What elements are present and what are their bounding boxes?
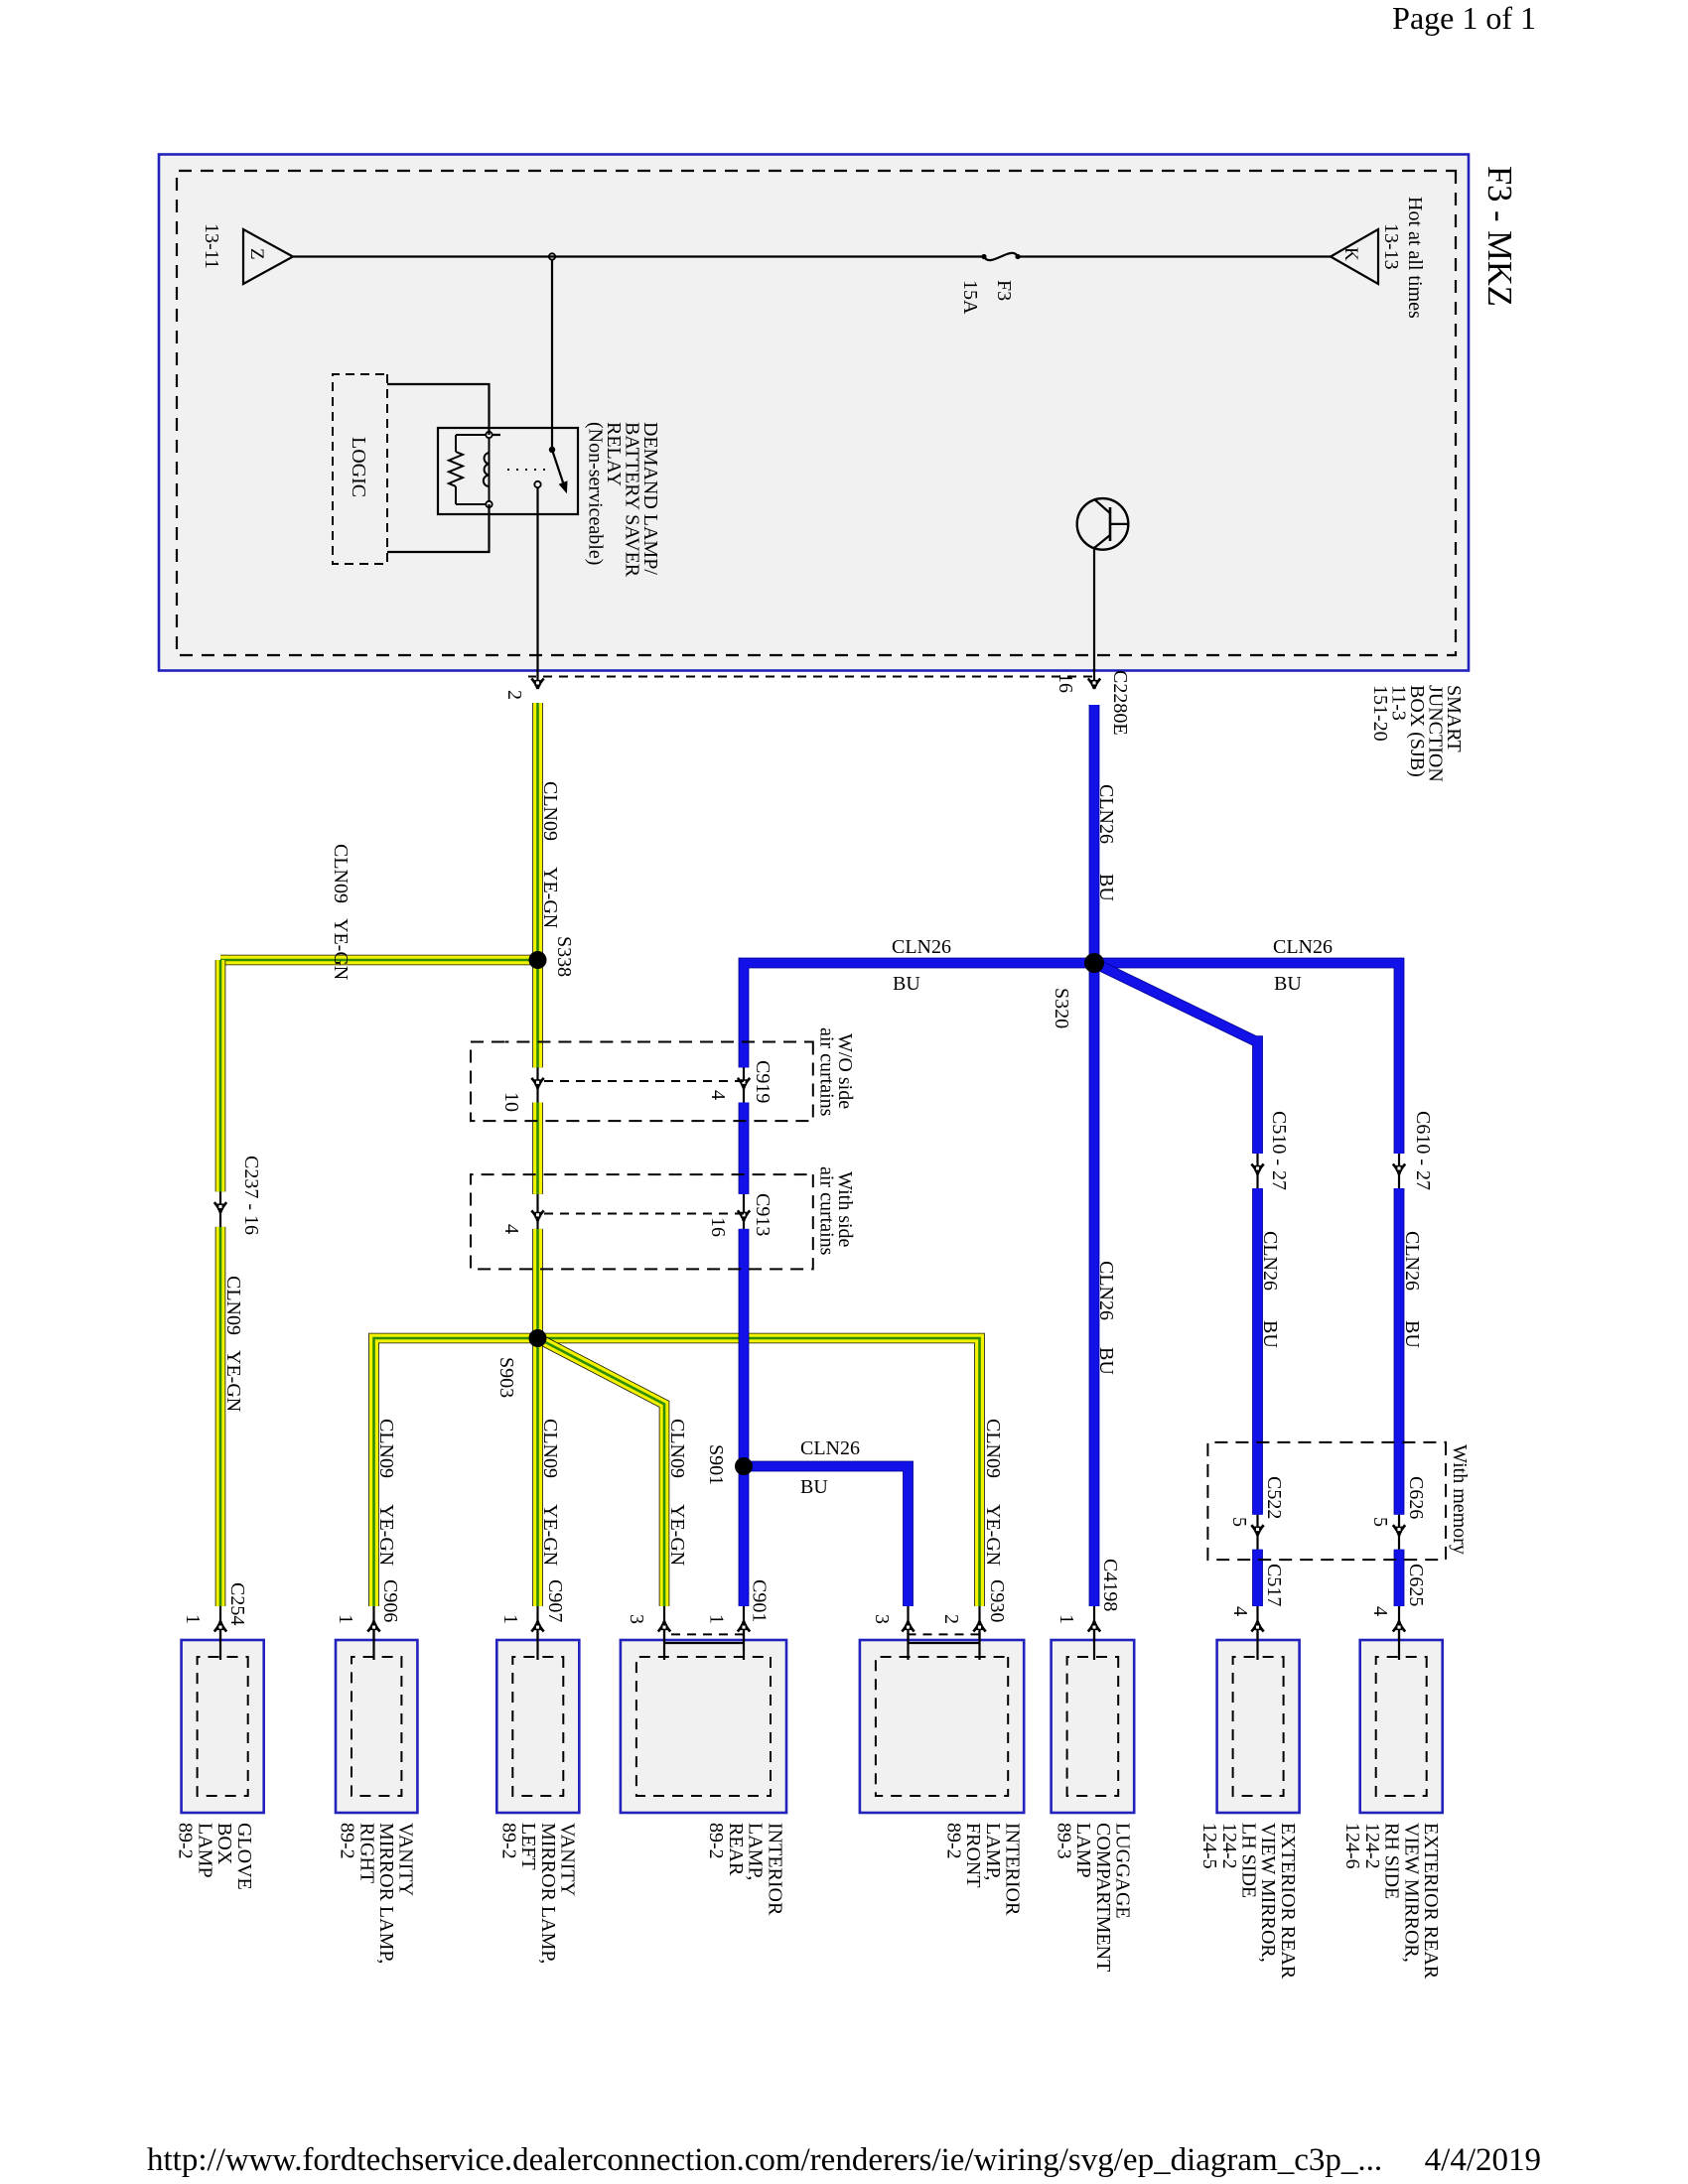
svg-text:15A: 15A — [959, 280, 981, 315]
svg-text:4: 4 — [707, 1090, 729, 1100]
svg-text:BU: BU — [1095, 1347, 1117, 1375]
W/O side air curtains connector face line — [538, 1080, 745, 1082]
in-line connector C626 pin 5 — [1398, 1515, 1400, 1550]
interior front connector face lines — [909, 1634, 980, 1643]
svg-text:C237 - 16: C237 - 16 — [240, 1156, 262, 1235]
svg-text:LAMP,: LAMP, — [982, 1823, 1004, 1880]
svg-text:89-2: 89-2 — [942, 1823, 964, 1859]
SJB connector face dashed line — [528, 676, 1092, 678]
splice S320 — [1084, 953, 1104, 973]
svg-text:89-2: 89-2 — [175, 1823, 197, 1859]
svg-text:124-5: 124-5 — [1198, 1823, 1220, 1869]
svg-text:C610 - 27: C610 - 27 — [1412, 1111, 1434, 1190]
W/O side air curtains dashed box — [471, 1042, 813, 1122]
SJB inner dashed boundary — [177, 171, 1456, 655]
svg-text:(Non-serviceable): (Non-serviceable) — [585, 422, 607, 565]
label CLN09 YE-GN (crossing wire) — [330, 844, 352, 980]
svg-text:BU: BU — [1401, 1320, 1423, 1348]
lead pin1 into glove box lamp — [219, 1631, 221, 1660]
svg-text:C906: C906 — [379, 1579, 401, 1622]
svg-text:With memory: With memory — [1449, 1444, 1471, 1555]
svg-text:REAR: REAR — [725, 1823, 747, 1876]
svg-text:BU: BU — [1259, 1320, 1281, 1348]
smart junction box (SJB) outline — [159, 155, 1469, 671]
bus tap node to relay — [549, 253, 555, 259]
in-line connector C913 pin 16 — [743, 1194, 745, 1229]
label W/O side air curtains — [816, 1027, 857, 1117]
wire CLN09 S338 to S903 with air-curtain pass-through — [532, 960, 543, 1067]
in-line connector C610 - 27 — [1398, 1154, 1400, 1188]
svg-text:S903: S903 — [495, 1357, 517, 1398]
in-line connector C510 - 27 — [1256, 1154, 1258, 1188]
svg-text:EXTERIOR REAR: EXTERIOR REAR — [1277, 1823, 1299, 1979]
svg-text:S320: S320 — [1051, 988, 1072, 1028]
labels CLN09 YE-GN C930 2 — [940, 1419, 1008, 1624]
svg-text:INTERIOR: INTERIOR — [764, 1823, 785, 1916]
pin 1 of C254 glove box lamp — [219, 1606, 221, 1660]
lead pin4 into RH mirror — [1398, 1631, 1400, 1660]
svg-text:C907: C907 — [544, 1579, 566, 1622]
svg-text:1: 1 — [335, 1614, 356, 1624]
svg-text:RH SIDE: RH SIDE — [1381, 1823, 1403, 1899]
svg-text:FRONT: FRONT — [962, 1823, 984, 1888]
label With side air curtains — [816, 1166, 857, 1256]
With memory dashed box — [1207, 1442, 1446, 1560]
lead and connector pin 4 (with side air curtains) — [536, 1194, 538, 1229]
svg-text:COMPARTMENT: COMPARTMENT — [1092, 1823, 1114, 1972]
interior lamp front box — [860, 1640, 1024, 1813]
leads into interior front — [978, 1631, 980, 1660]
svg-text:CLN09: CLN09 — [539, 781, 561, 841]
off-page connector triangle K — [1331, 229, 1378, 284]
relay coil — [484, 432, 492, 507]
wire CLN26 S901 to C901 pin 1 — [739, 1466, 750, 1606]
relay coil suppression resistor — [449, 435, 486, 504]
svg-text:LAMP: LAMP — [1072, 1823, 1094, 1878]
wire transistor to pin 16 — [1093, 548, 1095, 689]
svg-text:CLN09: CLN09 — [375, 1419, 397, 1478]
wire CLN26 pin16 to S320 — [1089, 705, 1100, 963]
label CLN26 BU — [1095, 784, 1117, 901]
svg-text:C254: C254 — [226, 1582, 248, 1625]
svg-text:5: 5 — [1369, 1517, 1391, 1527]
svg-text:VANITY: VANITY — [395, 1823, 417, 1896]
pin 2 of C930 — [978, 1606, 980, 1660]
svg-text:CLN09: CLN09 — [666, 1419, 688, 1478]
wire coil terminal A to logic — [387, 384, 500, 435]
splice S338 — [529, 951, 547, 969]
print header: Page 1 of 1 — [0, 0, 1536, 37]
svg-text:INTERIOR: INTERIOR — [1002, 1823, 1024, 1916]
label F3 15A — [959, 280, 1015, 315]
svg-text:CLN09: CLN09 — [982, 1419, 1004, 1478]
wire CLN09 pin2 to S338 — [532, 703, 543, 960]
vanity mirror lamp right box — [336, 1640, 417, 1813]
svg-text:1: 1 — [706, 1614, 728, 1624]
svg-text:4: 4 — [1369, 1606, 1391, 1616]
svg-text:CLN26: CLN26 — [1273, 936, 1333, 958]
pin 3 of C901 interior lamp rear — [663, 1606, 665, 1644]
svg-text:BOX: BOX — [213, 1823, 235, 1865]
pin 1 of C901 — [743, 1606, 745, 1644]
svg-text:124-6: 124-6 — [1341, 1823, 1363, 1869]
wire CLN09 S338 down-left branch to glove box — [220, 955, 538, 966]
exterior rear view mirror LH side box — [1217, 1640, 1300, 1813]
svg-text:CLN26: CLN26 — [892, 936, 951, 958]
svg-text:air curtains: air curtains — [816, 1166, 838, 1256]
svg-text:CLN26: CLN26 — [1401, 1231, 1423, 1291]
relay linkage dotted line — [500, 469, 545, 471]
label GLOVE BOX LAMP 89-2 — [175, 1823, 255, 1890]
wire CLN26 S320 to C4198 luggage lamp — [1089, 963, 1100, 1606]
svg-text:F3: F3 — [993, 280, 1015, 301]
svg-text:LUGGAGE: LUGGAGE — [1112, 1823, 1134, 1919]
wire CLN26 S320 up branch to RH mirror — [1094, 963, 1399, 1154]
splice S901 — [735, 1457, 753, 1475]
svg-text:MIRROR LAMP,: MIRROR LAMP, — [537, 1823, 559, 1964]
in-line connector C522 pin 5 — [1256, 1515, 1258, 1550]
label INTERIOR LAMP, FRONT 89-2 — [942, 1823, 1023, 1916]
exterior rear view mirror RH side box — [1360, 1640, 1443, 1813]
label INTERIOR LAMP, REAR 89-2 — [705, 1823, 785, 1916]
vanity mirror lamp left box — [496, 1640, 579, 1813]
svg-text:VANITY: VANITY — [557, 1823, 579, 1896]
wire relay switch to pin 2 — [536, 487, 538, 689]
svg-text:3: 3 — [626, 1614, 647, 1624]
svg-text:S901: S901 — [705, 1444, 727, 1485]
lead pin1 into vanity right — [372, 1631, 374, 1660]
svg-text:C930: C930 — [986, 1579, 1008, 1622]
svg-text:151-20: 151-20 — [1369, 685, 1391, 742]
svg-text:EXTERIOR REAR: EXTERIOR REAR — [1420, 1823, 1442, 1979]
svg-text:C522: C522 — [1263, 1476, 1285, 1519]
svg-text:CLN09: CLN09 — [222, 1276, 244, 1335]
labels CLN26 BU (to LH mirror) — [1259, 1231, 1281, 1348]
svg-text:10: 10 — [500, 1092, 522, 1112]
relay switch arm with arrow — [552, 450, 567, 492]
wire CLN26 S901 branch to interior lamp front pin 3 — [744, 1466, 909, 1606]
pin 4 of C517 LH mirror — [1256, 1606, 1258, 1660]
svg-text:BU: BU — [800, 1476, 828, 1498]
svg-text:LEFT: LEFT — [517, 1823, 539, 1870]
svg-text:16: 16 — [1055, 673, 1076, 693]
wire CLN09 S903 down branch to C906 vanity right pin 1 — [374, 1338, 538, 1606]
leads into interior rear — [743, 1631, 745, 1660]
svg-text:124-2: 124-2 — [1361, 1823, 1383, 1869]
splice S903 — [529, 1329, 547, 1347]
svg-text:C626: C626 — [1405, 1476, 1427, 1519]
svg-text:13-13: 13-13 — [1380, 223, 1402, 270]
label VANITY MIRROR LAMP, RIGHT 89-2 — [337, 1823, 417, 1964]
wire CLN26 S320 diagonal branch to LH mirror — [1094, 963, 1258, 1154]
svg-text:Z: Z — [246, 248, 267, 260]
pin 3 of interior lamp front — [907, 1606, 909, 1644]
rotated labels CLN26 BU (S901 branch) — [800, 1437, 860, 1498]
svg-text:Hot at all times: Hot at all times — [1404, 197, 1426, 319]
svg-text:YE-GN: YE-GN — [375, 1504, 397, 1566]
svg-text:YE-GN: YE-GN — [222, 1350, 244, 1412]
svg-text:LAMP,: LAMP, — [745, 1823, 767, 1880]
power bus wire (lower segment fuse to Z) — [293, 255, 984, 257]
labels CLN09 YE-GN C254 1 — [182, 1276, 248, 1625]
wire coil terminal B to logic — [387, 504, 490, 552]
pin 1 of C907 — [536, 1606, 538, 1660]
svg-text:C2280E: C2280E — [1109, 670, 1131, 736]
interior rear connector face lines — [664, 1634, 744, 1643]
svg-text:YE-GN: YE-GN — [539, 1504, 561, 1566]
labels CLN09 YE-GN 3 — [626, 1419, 688, 1624]
svg-text:C625: C625 — [1405, 1564, 1427, 1606]
svg-text:C510 - 27: C510 - 27 — [1268, 1111, 1290, 1190]
svg-text:89-3: 89-3 — [1053, 1823, 1074, 1859]
demand lamp / battery saver relay box — [438, 428, 578, 514]
svg-text:C4198: C4198 — [1099, 1559, 1121, 1611]
label CLN09 YE-GN — [539, 781, 561, 928]
svg-text:C517: C517 — [1263, 1564, 1285, 1606]
relay switch pivot — [549, 447, 555, 453]
lead and connector pin 10 (W/O side air curtains) — [536, 1067, 538, 1102]
label EXTERIOR REAR VIEW MIRROR, RH SIDE 124-2 124-6 — [1341, 1823, 1442, 1979]
LOGIC dashed box — [333, 374, 387, 564]
svg-text:VIEW MIRROR,: VIEW MIRROR, — [1257, 1823, 1279, 1963]
svg-text:YE-GN: YE-GN — [330, 918, 352, 980]
pin 16 of C2280E — [1088, 679, 1100, 690]
labels CLN09 YE-GN C906 1 — [335, 1419, 401, 1624]
svg-text:S338: S338 — [553, 936, 575, 977]
labels CLN26 BU C4198 1 — [1055, 1261, 1121, 1624]
svg-text:13-11: 13-11 — [201, 223, 222, 269]
pin 4 of C625 RH mirror — [1398, 1606, 1400, 1660]
svg-text:C919: C919 — [752, 1060, 774, 1103]
labels CLN09 YE-GN C907 1 — [499, 1419, 566, 1624]
label DEMAND LAMP/ BATTERY SAVER RELAY (Non-serviceable) — [585, 422, 662, 578]
svg-text:YE-GN: YE-GN — [666, 1504, 688, 1566]
svg-text:MIRROR LAMP,: MIRROR LAMP, — [375, 1823, 397, 1964]
svg-text:CLN09: CLN09 — [330, 844, 352, 903]
lead pin4 into LH mirror — [1256, 1631, 1258, 1660]
pin 1 of C4198 — [1093, 1606, 1095, 1660]
label SMART JUNCTION BOX (SJB) 11-3 151-20 — [1369, 685, 1465, 782]
svg-text:air curtains: air curtains — [816, 1027, 838, 1117]
svg-text:LOGIC: LOGIC — [348, 437, 369, 497]
wire CLN26 S320 down branch to S901 — [744, 963, 1094, 1067]
svg-text:K: K — [1340, 247, 1361, 261]
svg-text:2: 2 — [503, 690, 525, 700]
svg-text:16: 16 — [707, 1217, 729, 1237]
svg-text:CLN26: CLN26 — [1259, 1231, 1281, 1291]
wire CLN09 S903 diagonal branch to C901 pin 3 — [538, 1338, 665, 1606]
svg-text:LAMP: LAMP — [194, 1823, 215, 1878]
svg-text:F3 - MKZ: F3 - MKZ — [1480, 166, 1518, 307]
wire CLN09 S903 up branch to C930 interior lamp front pin 2 — [538, 1338, 980, 1606]
battery saver transistor symbol — [1077, 498, 1129, 550]
wire bus tap to relay switch — [551, 260, 553, 450]
svg-text:4: 4 — [500, 1224, 522, 1234]
svg-text:YE-GN: YE-GN — [982, 1504, 1004, 1566]
With side air curtains connector face line — [538, 1213, 745, 1215]
rotated labels CLN26 BU (lower vertical) — [892, 936, 951, 995]
svg-text:RIGHT: RIGHT — [355, 1823, 377, 1883]
relay switch common terminal — [534, 481, 540, 487]
fuse F3 15A — [981, 253, 1020, 260]
print footer: date 4/4/2019 — [0, 2142, 1541, 2179]
svg-text:2: 2 — [940, 1614, 962, 1624]
svg-text:124-2: 124-2 — [1218, 1823, 1240, 1869]
labels CLN26 BU (to RH mirror) — [1401, 1231, 1423, 1348]
svg-text:C913: C913 — [752, 1193, 774, 1236]
svg-text:CLN09: CLN09 — [539, 1419, 561, 1478]
svg-text:3: 3 — [871, 1614, 893, 1624]
print footer: source URL — [147, 2142, 1382, 2179]
svg-text:CLN26: CLN26 — [1095, 1261, 1117, 1320]
svg-text:1: 1 — [182, 1614, 204, 1624]
With side air curtains dashed box — [471, 1174, 813, 1269]
lead pin1 into luggage lamp — [1093, 1631, 1095, 1660]
svg-text:5: 5 — [1228, 1517, 1250, 1527]
svg-text:BU: BU — [893, 973, 920, 995]
label Hot at all times / 13-13 — [1380, 197, 1426, 319]
svg-text:GLOVE: GLOVE — [233, 1823, 255, 1890]
svg-text:LH SIDE: LH SIDE — [1238, 1823, 1260, 1898]
svg-text:89-2: 89-2 — [705, 1823, 727, 1859]
in-line connector C919 pin 4 — [743, 1067, 745, 1102]
pin 1 of C906 — [372, 1606, 374, 1660]
svg-text:VIEW MIRROR,: VIEW MIRROR, — [1400, 1823, 1422, 1963]
svg-text:89-2: 89-2 — [337, 1823, 358, 1859]
lead pin1 into vanity left — [536, 1631, 538, 1660]
wire CLN09 S903 straight to C907 vanity left pin 1 — [532, 1338, 543, 1606]
svg-text:YE-GN: YE-GN — [539, 867, 561, 928]
interior lamp rear box — [621, 1640, 786, 1813]
power bus wire (upper segment K to fuse) — [1018, 255, 1331, 257]
in-line connector C237 - 16 — [219, 1191, 221, 1227]
rotated labels CLN26 BU (upper vertical) — [1273, 936, 1333, 995]
svg-text:4: 4 — [1229, 1606, 1251, 1616]
svg-text:CLN26: CLN26 — [800, 1437, 860, 1459]
glove box lamp box — [182, 1640, 264, 1813]
svg-text:89-2: 89-2 — [498, 1823, 520, 1859]
off-page connector triangle Z — [243, 229, 293, 284]
label LUGGAGE COMPARTMENT LAMP 89-3 — [1053, 1823, 1133, 1972]
label EXTERIOR REAR VIEW MIRROR, LH SIDE 124-2 124-5 — [1198, 1823, 1299, 1979]
svg-text:1: 1 — [1055, 1614, 1077, 1624]
luggage compartment lamp box — [1052, 1640, 1135, 1813]
svg-text:BU: BU — [1274, 973, 1302, 995]
svg-text:C901: C901 — [749, 1579, 771, 1622]
svg-text:1: 1 — [499, 1614, 521, 1624]
pin 2 of SJB — [531, 679, 543, 690]
label VANITY MIRROR LAMP, LEFT 89-2 — [498, 1823, 579, 1964]
svg-text:CLN26: CLN26 — [1095, 784, 1117, 844]
svg-text:BU: BU — [1095, 874, 1117, 901]
